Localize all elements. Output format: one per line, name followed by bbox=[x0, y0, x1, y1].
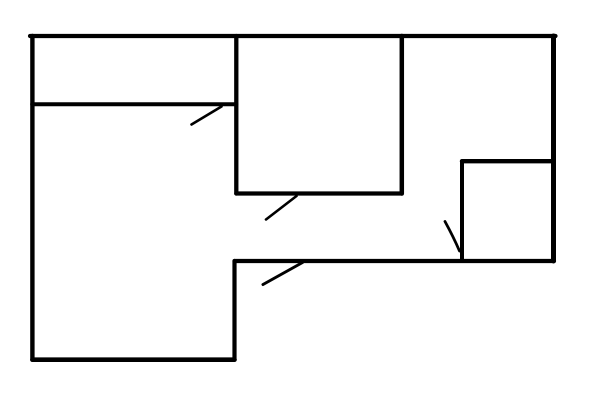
wall: bottom of left room bbox=[32, 357, 234, 362]
wall: vertical left edge of middle room bbox=[234, 36, 238, 194]
wall: outer left bbox=[30, 36, 34, 360]
wall: vertical step between bottom room and hall bbox=[232, 261, 236, 360]
wall: interior horizontal of top-left room bbox=[32, 102, 236, 106]
door swing mark B (middle room) bbox=[266, 196, 297, 220]
wall: outer top bbox=[30, 34, 556, 38]
wall: top edge of small right room bbox=[462, 159, 554, 163]
wall: long horizontal hall wall bbox=[235, 259, 555, 263]
wall: bottom edge of middle room bbox=[236, 191, 401, 195]
wall: outer right bbox=[551, 36, 556, 261]
door swing mark A (top-left room) bbox=[192, 107, 222, 125]
door swing mark D (small right room) bbox=[445, 222, 460, 252]
wall: right edge of middle room bbox=[400, 36, 405, 194]
door swing mark C (hall wall) bbox=[263, 263, 303, 285]
wall: left edge of small right room bbox=[460, 161, 464, 261]
